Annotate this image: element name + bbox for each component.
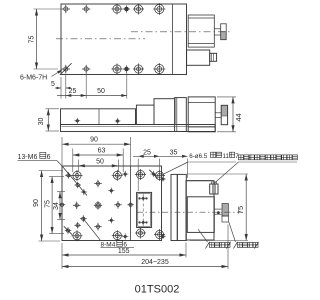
- top view: counterbore hole A3: [112, 4, 123, 15]
- front view: motor flange line upper: [188, 102, 215, 104]
- label connector underline: [239, 161, 298, 163]
- svg-text:30: 30: [38, 118, 45, 126]
- svg-text:90: 90: [33, 199, 40, 207]
- svg-text:6: 6: [47, 154, 51, 161]
- svg-text:63: 63: [98, 148, 106, 155]
- bottom view: corner counterbore hole C2: [112, 170, 123, 181]
- top view: motor body: [188, 15, 214, 47]
- bottom view: M4 hole D7: [108, 217, 114, 223]
- label manual handwheel (4 CJK chars): [234, 242, 238, 249]
- dimension 75 (top view hole row spacing) extension lines: [34, 8, 62, 10]
- top view: motor connector tip: [210, 53, 217, 61]
- dimension 25 (side) dim line: [133, 155, 160, 157]
- front view: plate split line: [98, 109, 100, 125]
- side view: motor mount bracket: [186, 181, 214, 240]
- bottom view: M4 hole D6: [114, 201, 122, 209]
- front view: bracket inner line: [176, 98, 178, 132]
- dimension 30 dim line: [47, 109, 49, 131]
- top view: large counterbore hole B6: [153, 63, 165, 75]
- bottom view: corner counterbore hole C3: [72, 230, 83, 241]
- svg-text:5: 5: [51, 81, 55, 88]
- top view: M6 tapped hole B2: [82, 65, 90, 73]
- top view: counterbore hole B3: [112, 64, 123, 75]
- bottom view: connector center pins: [141, 196, 146, 201]
- dimension 75 left dim line: [51, 177, 53, 234]
- bottom view: M4 hole D1: [94, 180, 102, 188]
- label 6-M6-7H leader: [52, 70, 62, 76]
- svg-text:50: 50: [96, 158, 104, 165]
- front view: base plate: [61, 125, 216, 132]
- top view: dowel hole B4: [123, 65, 130, 72]
- dimension 75 dim line: [36, 9, 38, 69]
- dimension 90 left dim line: [41, 171, 43, 242]
- side view: signal connector on top: [210, 184, 218, 194]
- dimension 35 dim line: [160, 155, 188, 157]
- side view: knurled handwheel: [222, 204, 228, 217]
- dimension 90 extension lines: [61, 137, 63, 166]
- bottom view: M4 hole D8: [94, 223, 102, 231]
- dimension 75 (side view) extension lines: [187, 173, 248, 175]
- bottom view: right section bottom counterbore holes: [135, 228, 146, 239]
- front view: step block 2: [154, 99, 175, 125]
- bottom view: plate boundary line: [130, 166, 132, 241]
- top view: M6 tapped hole B1: [62, 65, 70, 73]
- side view: bracket top edge: [186, 180, 212, 182]
- bottom view: M4 hole D4: [73, 202, 81, 210]
- bottom view: M4 hole D2: [81, 189, 87, 195]
- bottom view: leader diagonal from 13-M6 label through holes: [63, 167, 88, 196]
- bottom view: left edge hole: [59, 202, 65, 208]
- svg-text:25: 25: [69, 88, 77, 95]
- svg-text:90: 90: [90, 137, 98, 144]
- front view: set screw hole right: [115, 118, 121, 124]
- dimension 50 dim line bottom view: [78, 165, 118, 167]
- dimension 34 dim line: [59, 192, 61, 220]
- bottom view: connector block centerline: [142, 194, 144, 228]
- dimension 204~235 extension lines: [227, 225, 229, 270]
- dimension 44 extension lines: [217, 96, 236, 98]
- bottom view: slash on bottom-left hole: [64, 226, 72, 234]
- dimension 155 extension lines: [61, 243, 63, 269]
- bottom view: M4 hole D3: [108, 188, 114, 194]
- svg-text:75: 75: [44, 200, 51, 208]
- top view: base/plate boundary line: [171, 4, 173, 75]
- top view: slash mark on referenced hole B1: [60, 63, 72, 75]
- top view: stage top plate outline: [61, 4, 187, 75]
- bottom view: corner counterbore hole C1: [72, 170, 83, 181]
- side view: stage plate edge-on: [171, 174, 177, 240]
- svg-text:13-M6: 13-M6: [18, 154, 38, 161]
- bottom view: boundary line hole: [127, 202, 133, 208]
- bottom view: center hole D5: [94, 201, 102, 209]
- side view: motor body: [187, 197, 214, 233]
- bottom view: right section top counterbore holes: [135, 169, 146, 180]
- top view: M6 tapped hole A2: [82, 5, 90, 13]
- top view: dowel hole A4: [123, 5, 130, 12]
- dimension 5 dim line: [55, 87, 61, 89]
- bottom view: M4 hole with slash (8-M4 reference): [80, 215, 87, 222]
- dimension 25/35 extension lines: [137, 159, 139, 192]
- svg-text:25: 25: [143, 149, 151, 156]
- front view: motor body: [188, 97, 215, 132]
- bottom view: small hole above C3: [75, 222, 81, 228]
- dimension 34 extension lines: [57, 191, 65, 193]
- dimension 63 extension lines: [72, 149, 74, 173]
- label 8-M4 underline: [101, 246, 135, 248]
- dimension 90 left extension lines: [39, 170, 64, 172]
- side view: shaft end dot: [217, 211, 220, 214]
- svg-text:6-ø6.5: 6-ø6.5: [189, 153, 207, 160]
- front view: hidden screw line (dashed): [135, 110, 137, 121]
- dimension 63 dim line: [73, 154, 123, 156]
- dimension 25/50 extension lines: [85, 73, 87, 99]
- side view: second plate edge-on: [177, 174, 186, 240]
- top view: counterbore hole A5: [133, 4, 144, 15]
- front view: knurled handwheel: [221, 105, 227, 124]
- top view: leadscrew axis centerline (dashed): [131, 31, 231, 33]
- label 13-M6 leader: [57, 161, 63, 167]
- svg-text:6-M6-7H: 6-M6-7H: [20, 75, 47, 82]
- side view: handwheel shaft: [214, 208, 221, 210]
- front view: step block 1: [136, 105, 154, 124]
- label 6-dia6.5 underline: [188, 161, 236, 163]
- bottom view: small hole bottom-right: [122, 233, 128, 239]
- dimension 50 (bottom view) extension lines: [77, 160, 79, 173]
- bottom view: small hole top-right: [122, 171, 128, 177]
- bottom view: base plate outline: [62, 166, 162, 241]
- bottom view: corner counterbore hole C4: [112, 230, 123, 241]
- svg-text:204~235: 204~235: [141, 259, 169, 266]
- front view: motor bracket: [175, 98, 187, 132]
- side view: axis centerline (dashed): [137, 211, 243, 213]
- front view: handwheel shaft: [215, 112, 221, 114]
- label 8-M4 leader diagonal: [83, 219, 100, 241]
- svg-text:34: 34: [53, 202, 60, 210]
- top view: motor connector body: [187, 50, 210, 65]
- label manual handwheel leader: [229, 222, 236, 242]
- dimension 30 extension lines: [46, 108, 60, 110]
- dimension 75 side dim line: [245, 174, 247, 241]
- svg-text:01TS002: 01TS002: [135, 284, 180, 296]
- svg-text:44: 44: [234, 113, 243, 121]
- bottom view: small hole with slash right-top: [150, 171, 156, 177]
- front view: motor flange line lower: [188, 126, 215, 128]
- top view: motor flange line lower: [188, 43, 214, 45]
- label motor-cable-connector (11 CJK chars): [239, 155, 244, 160]
- front view: base plate inner line: [62, 126, 216, 128]
- top view: stage centerline (dashed): [56, 38, 145, 40]
- dimension 25 dim line: [57, 95, 86, 97]
- top view: motor flange line upper: [188, 17, 214, 19]
- top view: handwheel shaft: [215, 28, 221, 30]
- top view: M6 tapped hole A1: [62, 5, 70, 13]
- label stepper motor (4 CJK chars): [206, 242, 210, 249]
- svg-text:155: 155: [118, 248, 130, 255]
- front view: moving top plate: [61, 109, 136, 125]
- label stepper motor leader: [198, 229, 208, 242]
- bottom view: small hole under C1: [75, 182, 81, 188]
- bottom view: small hole with slash top-left: [65, 172, 71, 178]
- dimension 90 dim line: [62, 143, 131, 145]
- top view: counterbore hole B5: [133, 64, 144, 75]
- dimension 5 extension lines: [60, 77, 62, 99]
- svg-text:11: 11: [223, 153, 230, 160]
- svg-text:35: 35: [170, 149, 178, 156]
- svg-text:50: 50: [97, 88, 105, 95]
- svg-text:75: 75: [236, 206, 245, 214]
- dimension 204~235 dim line: [62, 266, 228, 268]
- svg-text:75: 75: [29, 36, 36, 44]
- top view: large counterbore hole A6: [153, 3, 165, 15]
- bottom view: small hole bottom-left: [65, 227, 71, 233]
- label 13-M6 underline: [18, 160, 58, 162]
- top view: knurled handwheel: [221, 24, 227, 40]
- label connector leader: [214, 162, 239, 184]
- label 6-dia6.5 leader diagonal: [161, 162, 188, 175]
- side view: handwheel hub below: [222, 216, 228, 222]
- bottom view: edge hole right-top: [160, 176, 165, 181]
- bottom view: edge hole right-bottom: [160, 234, 165, 239]
- bottom view: motor connector block (viewed from below): [137, 192, 152, 227]
- dimension 44 dim line: [232, 97, 234, 132]
- dimension 50 dim line: [86, 95, 127, 97]
- dimension 155 dim line: [62, 254, 186, 256]
- front view: set screw hole left: [74, 118, 80, 124]
- dimension 75 left extension lines: [49, 176, 64, 178]
